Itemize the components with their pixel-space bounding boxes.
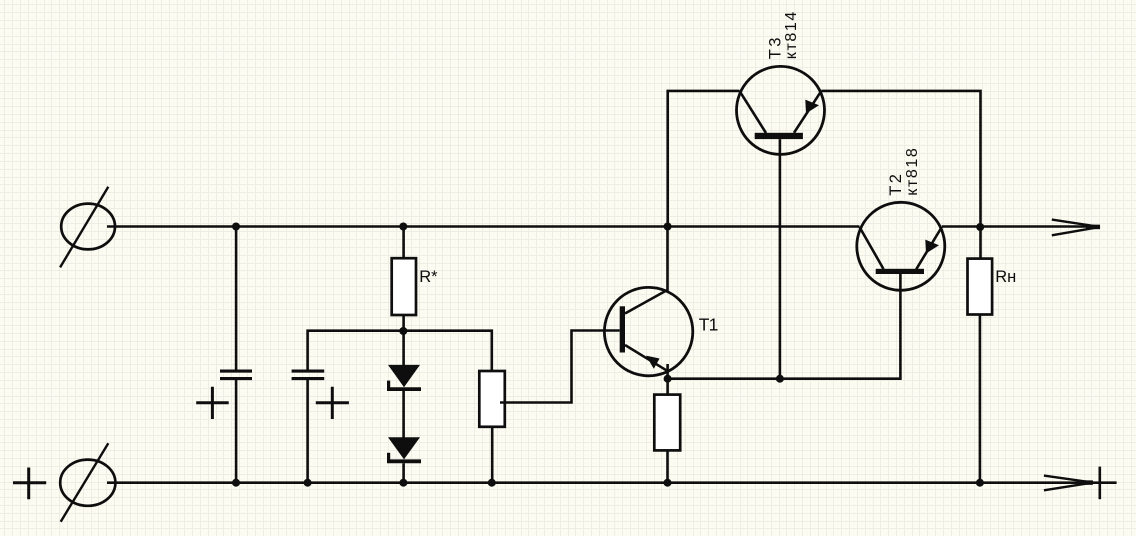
svg-text:T1: T1 (699, 314, 718, 334)
svg-text:кт814: кт814 (783, 10, 800, 59)
svg-text:R*: R* (419, 268, 438, 286)
svg-text:T3: T3 (766, 35, 784, 59)
svg-text:кт818: кт818 (904, 147, 921, 196)
svg-text:Rн: Rн (995, 268, 1016, 286)
svg-text:T2: T2 (887, 172, 905, 196)
